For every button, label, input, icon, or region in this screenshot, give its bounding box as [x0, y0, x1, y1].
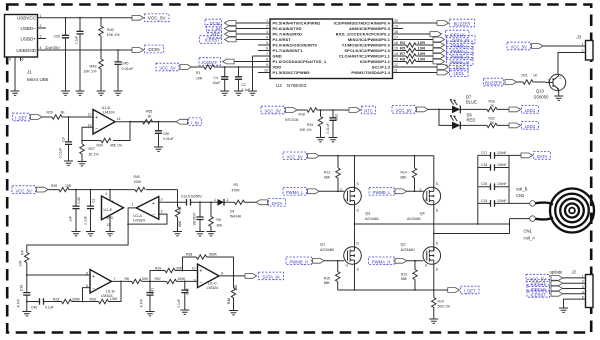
svg-text:VDD: VDD	[273, 64, 282, 69]
svg-text:68K: 68K	[401, 175, 408, 179]
svg-text:C45: C45	[122, 62, 129, 66]
svg-text:BUZZER: BUZZER	[454, 21, 471, 26]
svg-text:DATA: DATA	[272, 201, 283, 206]
svg-text:ICERST: ICERST	[205, 38, 221, 43]
svg-text:ICEDAT: ICEDAT	[531, 282, 546, 287]
svg-text:+: +	[92, 274, 95, 280]
svg-text:R28: R28	[90, 297, 96, 301]
svg-text:J3: J3	[576, 35, 582, 40]
svg-text:R21: R21	[522, 74, 528, 78]
svg-text:VCC_5V: VCC_5V	[287, 155, 303, 160]
svg-text:LED2: LED2	[525, 124, 536, 129]
svg-text:1: 1	[132, 203, 134, 207]
svg-text:ICECLK: ICECLK	[450, 32, 465, 37]
svg-text:R8: R8	[400, 57, 406, 62]
svg-text:LM324: LM324	[207, 286, 219, 290]
svg-text:100K: 100K	[134, 180, 143, 184]
svg-text:R42: R42	[107, 28, 114, 32]
svg-text:68K: 68K	[178, 220, 182, 227]
svg-text:4: 4	[105, 192, 107, 196]
svg-text:LED1: LED1	[525, 108, 536, 113]
svg-text:Q3: Q3	[365, 212, 370, 216]
svg-text:C26: C26	[54, 35, 60, 39]
svg-text:R29: R29	[155, 266, 161, 270]
svg-text:1: 1	[340, 187, 342, 191]
svg-text:DATA_IN: DATA_IN	[452, 38, 469, 43]
svg-text:IC3/PWM3/STADC/AIN6/P0.4: IC3/PWM3/STADC/AIN6/P0.4	[334, 20, 391, 25]
svg-text:N76E003: N76E003	[287, 83, 307, 88]
svg-text:R10: R10	[438, 299, 444, 303]
svg-text:−: −	[152, 213, 155, 219]
svg-text:C40: C40	[31, 306, 37, 310]
svg-text:2K: 2K	[490, 121, 495, 125]
svg-text:R7: R7	[400, 51, 406, 56]
svg-text:0.01uF: 0.01uF	[326, 123, 330, 134]
svg-text:P0.6/AIN3/TXD: P0.6/AIN3/TXD	[273, 26, 302, 31]
svg-text:DCIN: DCIN	[148, 47, 159, 52]
svg-text:3: 3	[161, 198, 163, 202]
svg-text:RXD_1/OCDCK/ICPCK/P0.2: RXD_1/OCDCK/ICPCK/P0.2	[336, 31, 391, 36]
svg-text:45K 1%: 45K 1%	[110, 143, 122, 147]
svg-text:0.1uF: 0.1uF	[242, 88, 251, 92]
svg-text:P0.5/AIN4/T0/ICA/PWM2: P0.5/AIN4/T0/ICA/PWM2	[273, 20, 322, 25]
svg-text:P1.7/AIN0/INT1: P1.7/AIN0/INT1	[273, 48, 304, 53]
svg-text:J1: J1	[27, 70, 32, 75]
svg-text:2K 1%: 2K 1%	[89, 152, 99, 156]
svg-text:C31 5.6n/50V: C31 5.6n/50V	[181, 194, 202, 198]
svg-text:R23: R23	[53, 297, 59, 301]
svg-text:R3: R3	[234, 183, 238, 187]
svg-text:−: −	[200, 281, 203, 287]
svg-text:P2.0/RST: P2.0/RST	[273, 37, 292, 42]
svg-text:10K: 10K	[19, 260, 23, 267]
svg-text:PWM1/T0/SDA/P1.4: PWM1/T0/SDA/P1.4	[351, 70, 390, 75]
svg-text:U1-E: U1-E	[104, 208, 113, 212]
svg-text:+: +	[200, 269, 203, 275]
svg-text:10R: 10R	[418, 40, 426, 45]
svg-text:10: 10	[192, 266, 196, 270]
svg-text:T1/MOSI/IC3/PWM3/P0.0: T1/MOSI/IC3/PWM3/P0.0	[342, 42, 391, 47]
svg-text:PWMA_H: PWMA_H	[451, 60, 469, 65]
svg-text:MISO/IC4/PWM4/P0.1: MISO/IC4/PWM4/P0.1	[348, 37, 391, 42]
svg-text:0.1uF: 0.1uF	[177, 299, 181, 308]
svg-text:BLUE: BLUE	[466, 100, 477, 105]
svg-text:R33: R33	[489, 99, 495, 103]
svg-text:VCC_5V: VCC_5V	[396, 108, 412, 113]
svg-text:ICERST: ICERST	[531, 292, 547, 297]
svg-text:R48: R48	[227, 298, 231, 304]
svg-text:11: 11	[107, 223, 111, 227]
svg-text:U1-A: U1-A	[133, 214, 142, 218]
svg-text:470R: 470R	[232, 189, 241, 193]
svg-text:R39: R39	[51, 184, 57, 188]
svg-text:NTC: NTC	[211, 32, 220, 37]
svg-text:P0.7/AIN2/RXD: P0.7/AIN2/RXD	[273, 31, 303, 36]
svg-text:coil_B: coil_B	[516, 187, 528, 192]
svg-text:DATA_IN: DATA_IN	[262, 275, 279, 280]
svg-text:1: 1	[559, 76, 561, 80]
svg-text:C39: C39	[19, 285, 23, 291]
svg-text:0.01uF: 0.01uF	[122, 67, 135, 71]
svg-text:R41: R41	[178, 206, 182, 212]
svg-text:33n/50V: 33n/50V	[193, 212, 197, 225]
svg-text:R27: R27	[89, 147, 95, 151]
svg-text:2: 2	[548, 79, 550, 83]
svg-text:R5: R5	[217, 218, 221, 222]
svg-text:Q2: Q2	[401, 243, 406, 247]
svg-text:VCC_5V: VCC_5V	[265, 109, 281, 114]
svg-text:2: 2	[161, 210, 163, 214]
svg-text:J2: J2	[571, 270, 577, 275]
svg-text:1: 1	[40, 14, 42, 18]
svg-text:0.01uF: 0.01uF	[59, 148, 63, 159]
svg-text:C14: C14	[481, 199, 487, 203]
svg-text:VCC_5V: VCC_5V	[511, 45, 527, 50]
svg-text:R5: R5	[400, 46, 406, 51]
svg-text:P1.6/OCDDA/ICPDA/TXD_1: P1.6/OCDDA/ICPDA/TXD_1	[273, 59, 327, 64]
svg-text:0.1uF: 0.1uF	[45, 306, 54, 310]
svg-text:I_DET: I_DET	[464, 289, 476, 294]
svg-text:AO3480: AO3480	[320, 248, 334, 252]
svg-text:CN1: CN1	[524, 229, 533, 234]
svg-text:I_IN: I_IN	[212, 27, 220, 32]
svg-text:1K: 1K	[533, 74, 538, 78]
svg-text:AO3480: AO3480	[401, 248, 415, 252]
svg-text:D4: D4	[230, 210, 234, 214]
svg-text:100nF: 100nF	[497, 199, 507, 203]
svg-text:3K: 3K	[61, 111, 66, 115]
svg-text:CN2: CN2	[516, 193, 525, 198]
svg-text:100nF: 100nF	[497, 163, 507, 167]
svg-text:DCIN: DCIN	[210, 21, 220, 26]
svg-text:C4: C4	[214, 76, 218, 80]
svg-text:LED2: LED2	[453, 65, 464, 70]
svg-text:C41: C41	[150, 288, 154, 294]
svg-text:R6: R6	[125, 277, 129, 281]
svg-text:10R: 10R	[418, 57, 426, 62]
svg-text:10K 1%: 10K 1%	[107, 33, 121, 37]
svg-text:100nF: 100nF	[497, 151, 507, 155]
svg-text:3K: 3K	[148, 114, 153, 118]
svg-text:R2: R2	[400, 40, 406, 45]
svg-text:LM324: LM324	[133, 219, 145, 223]
svg-text:PWMB_L: PWMB_L	[451, 43, 469, 48]
svg-text:USBD−: USBD−	[21, 26, 37, 31]
svg-text:0.1uF: 0.1uF	[75, 36, 79, 45]
svg-text:4.7nF: 4.7nF	[140, 299, 144, 308]
svg-text:C16: C16	[481, 163, 487, 167]
svg-text:+: +	[152, 201, 155, 207]
svg-text:P1.5/SS/IC7/PWM5: P1.5/SS/IC7/PWM5	[273, 70, 311, 75]
svg-text:LM324: LM324	[101, 294, 113, 298]
svg-text:5: 5	[9, 58, 11, 62]
svg-text:PWMB_H: PWMB_H	[290, 260, 308, 265]
svg-text:R14: R14	[401, 171, 407, 175]
svg-text:R18: R18	[299, 113, 305, 117]
svg-text:10K 1%: 10K 1%	[83, 70, 97, 74]
svg-text:C15: C15	[481, 182, 487, 186]
svg-text:100nF: 100nF	[497, 182, 507, 186]
svg-text:coil_A: coil_A	[524, 236, 536, 241]
svg-text:GND: GND	[106, 216, 114, 220]
svg-text:I_DET: I_DET	[15, 116, 27, 121]
svg-text:C9: C9	[62, 137, 66, 141]
svg-text:22uF/25V: 22uF/25V	[45, 46, 60, 50]
svg-text:R65: R65	[146, 109, 152, 113]
svg-text:R43: R43	[90, 64, 97, 68]
svg-text:R12: R12	[401, 272, 407, 276]
svg-text:LED1: LED1	[453, 71, 464, 76]
svg-text:LM324: LM324	[103, 110, 115, 114]
svg-text:PWMA_L: PWMA_L	[286, 190, 304, 195]
svg-text:2K: 2K	[490, 104, 495, 108]
svg-text:IC0/PWM0/P1.2: IC0/PWM0/P1.2	[360, 59, 391, 64]
svg-text:P3.0/AIN1/OSCIN/INT0: P3.0/AIN1/OSCIN/INT0	[273, 42, 318, 47]
svg-text:Q4: Q4	[420, 212, 425, 216]
svg-text:SCL/P1.3: SCL/P1.3	[372, 64, 391, 69]
svg-text:1: 1	[214, 198, 216, 202]
svg-text:30K: 30K	[142, 277, 149, 281]
svg-text:C42: C42	[185, 288, 189, 294]
svg-text:PWMB_L: PWMB_L	[373, 190, 391, 195]
svg-text:DATA: DATA	[537, 154, 548, 159]
svg-text:VCC_5V: VCC_5V	[159, 66, 175, 71]
svg-text:VCC_5V: VCC_5V	[16, 188, 32, 193]
svg-text:C43: C43	[77, 197, 81, 203]
svg-text:NTC/10k: NTC/10k	[285, 118, 299, 122]
svg-text:G: G	[346, 264, 349, 268]
svg-text:2: 2	[227, 198, 229, 202]
svg-text:3: 3	[40, 35, 42, 39]
svg-text:6: 6	[22, 58, 24, 62]
svg-text:SS8050: SS8050	[534, 95, 550, 100]
svg-text:0.01uF: 0.01uF	[163, 137, 174, 141]
svg-text:12: 12	[88, 113, 92, 117]
svg-text:update: update	[550, 270, 563, 275]
svg-text:C1: C1	[92, 198, 96, 202]
svg-text:Q10: Q10	[536, 89, 545, 94]
svg-text:Q1: Q1	[320, 243, 325, 247]
svg-text:7: 7	[114, 277, 116, 281]
svg-text:AO3481: AO3481	[407, 217, 421, 221]
svg-text:8: 8	[221, 272, 223, 276]
svg-text:PWMA_L: PWMA_L	[451, 49, 469, 54]
svg-text:10R: 10R	[418, 46, 426, 51]
svg-text:200K: 200K	[72, 297, 81, 301]
svg-text:I_IN: I_IN	[191, 120, 199, 125]
svg-text:C17: C17	[481, 151, 487, 155]
svg-text:R4: R4	[20, 250, 24, 254]
svg-text:100K: 100K	[178, 277, 187, 281]
svg-text:+: +	[111, 200, 114, 206]
svg-text:C50: C50	[163, 132, 169, 136]
svg-text:R13: R13	[324, 171, 330, 175]
svg-text:1uF: 1uF	[69, 216, 73, 222]
svg-text:10R: 10R	[418, 51, 426, 56]
svg-text:10uF: 10uF	[213, 81, 221, 85]
svg-text:30K: 30K	[217, 224, 224, 228]
svg-text:G: G	[425, 264, 428, 268]
svg-text:10R: 10R	[65, 184, 72, 188]
svg-text:68K: 68K	[324, 175, 331, 179]
svg-text:G: G	[346, 198, 349, 202]
svg-text:4.7nF: 4.7nF	[16, 299, 20, 308]
svg-text:6: 6	[86, 284, 88, 288]
svg-text:U2: U2	[276, 83, 282, 88]
svg-text:50m 1%: 50m 1%	[438, 304, 450, 308]
svg-text:30K: 30K	[176, 266, 183, 270]
svg-text:USBGND: USBGND	[16, 48, 36, 53]
svg-text:10K 1%: 10K 1%	[300, 128, 312, 132]
svg-text:R26: R26	[47, 111, 53, 115]
svg-text:−: −	[95, 126, 98, 132]
svg-text:Micro UB5: Micro UB5	[27, 77, 49, 82]
svg-text:22K: 22K	[234, 284, 238, 291]
svg-text:68K: 68K	[401, 277, 408, 281]
svg-text:PWMB_H: PWMB_H	[451, 54, 469, 59]
svg-text:AO3481: AO3481	[365, 217, 379, 221]
svg-text:U1-B: U1-B	[106, 289, 115, 293]
svg-text:0.1uF: 0.1uF	[84, 216, 88, 225]
svg-text:C2: C2	[242, 83, 246, 87]
svg-text:IN4148: IN4148	[230, 215, 241, 219]
svg-text:14: 14	[117, 117, 121, 121]
svg-text:PWMA_H: PWMA_H	[372, 260, 390, 265]
svg-text:U1-C: U1-C	[208, 282, 217, 286]
svg-text:NTC: NTC	[364, 109, 373, 114]
svg-text:2: 2	[40, 24, 42, 28]
svg-text:SPCLK/IC2/PWM2/P1.0: SPCLK/IC2/PWM2/P1.0	[344, 48, 390, 53]
svg-text:+: +	[95, 115, 98, 121]
svg-text:USBD+: USBD+	[21, 36, 37, 41]
svg-text:560K: 560K	[209, 253, 218, 257]
svg-text:R34: R34	[97, 143, 103, 147]
svg-text:68K: 68K	[324, 281, 331, 285]
svg-text:R57: R57	[155, 277, 161, 281]
svg-text:VCC_5V: VCC_5V	[530, 276, 546, 281]
svg-text:R1: R1	[196, 71, 200, 75]
svg-text:−: −	[92, 286, 95, 292]
svg-text:CLO/AIN7/IC1/PWM1/P1.1: CLO/AIN7/IC1/PWM1/P1.1	[339, 53, 391, 58]
svg-text:10R: 10R	[196, 77, 203, 81]
svg-text:G: G	[425, 198, 428, 202]
svg-text:AIN5/IC5/PWM5/P0.3: AIN5/IC5/PWM5/P0.3	[349, 26, 391, 31]
svg-text:9: 9	[194, 279, 196, 283]
svg-text:5: 5	[86, 272, 88, 276]
svg-text:R19: R19	[307, 123, 313, 127]
svg-text:RED: RED	[467, 118, 476, 123]
svg-text:R40: R40	[134, 175, 140, 179]
svg-text:ICEDAT: ICEDAT	[202, 60, 217, 65]
svg-text:C12: C12	[335, 114, 339, 120]
svg-text:GND: GND	[273, 53, 282, 58]
svg-text:USBVCC: USBVCC	[17, 16, 37, 21]
svg-text:R38: R38	[186, 253, 192, 257]
svg-text:1: 1	[419, 187, 421, 191]
svg-text:VCC_5V: VCC_5V	[148, 16, 167, 21]
svg-text:R15: R15	[324, 276, 330, 280]
svg-text:BUZZER: BUZZER	[485, 81, 502, 86]
svg-text:4: 4	[40, 46, 42, 50]
svg-text:R32: R32	[489, 116, 495, 120]
svg-text:ICECLK: ICECLK	[531, 287, 546, 292]
